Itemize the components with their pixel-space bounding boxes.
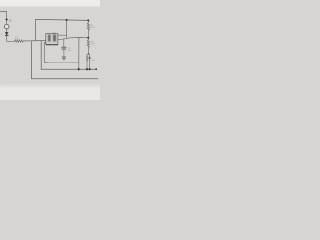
ground symbol [62, 56, 66, 58]
page background [0, 0, 100, 100]
node dots bottom [86, 68, 88, 70]
wire: resistor to IC [23, 40, 46, 43]
node dot on top rail [66, 19, 68, 21]
resistor R4 (small vertical zigzag, left branch) [86, 54, 88, 69]
capacitor right branch [89, 54, 91, 69]
svg-text:BU: BU [9, 20, 13, 22]
capacitor C1 lead [63, 39, 65, 47]
IC interior pin column right [53, 35, 56, 42]
split node [88, 53, 89, 54]
light strip at top (edge of page) [0, 0, 100, 8]
svg-text:Cxx: Cxx [91, 60, 94, 62]
wire: vertical drop to mid-bottom rail [78, 38, 80, 70]
node dot mid-right [87, 37, 89, 39]
svg-text:1.0k: 1.0k [90, 27, 94, 29]
node dot on input feed [6, 18, 8, 20]
wire: IC lower-left pin loop [44, 43, 47, 63]
IC interior pin column left [48, 35, 51, 42]
capacitor C1 plates [61, 46, 66, 48]
IC bottom shadow edge [46, 44, 58, 46]
wire: branch up at x=35.6 to top rail [36, 19, 89, 41]
connector circle [4, 24, 9, 29]
wire: IC right pin A to vertical [58, 34, 67, 36]
node dot top-right [87, 19, 89, 21]
resistor R3 (vertical zigzag) [87, 38, 89, 54]
wire: IC right pin B across [58, 38, 88, 40]
faint page edge line top-left [0, 0, 2, 7]
wire: branch down at x=41.2 to mid-bottom rail [41, 41, 96, 69]
resistor R1 (horizontal zigzag) [15, 40, 24, 42]
capacitor C1 lower lead [63, 49, 65, 56]
wire: input feed from left edge [0, 12, 7, 25]
light strip at bottom (below page) [0, 86, 100, 101]
diode D1 [5, 32, 9, 35]
wire: vertical from top rail down [66, 20, 68, 39]
resistor R2 (vertical zigzag) [87, 20, 89, 38]
wire below connector [6, 29, 8, 32]
wire: faint rail segment [48, 61, 79, 63]
wire: branch down at x=31.5 to bottom rail [32, 41, 99, 78]
svg-text:10u: 10u [68, 50, 71, 52]
svg-text:1.0k: 1.0k [91, 43, 95, 45]
node dot [78, 68, 80, 70]
IC U1 box [46, 34, 58, 45]
wire: diode to bottom corner then right [7, 36, 15, 42]
